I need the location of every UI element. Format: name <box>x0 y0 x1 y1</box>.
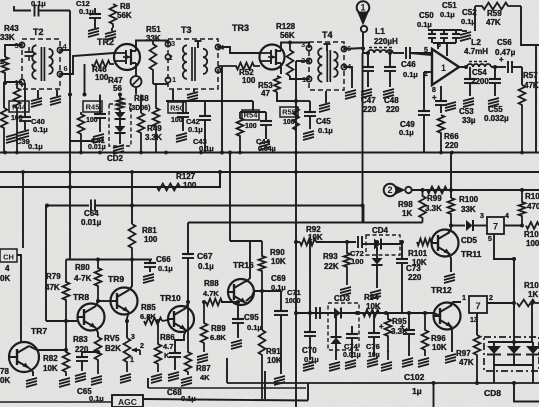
resistor R90 <box>259 241 266 291</box>
junction bus point 3 <box>98 151 102 155</box>
wire CD8 top rail <box>488 341 533 343</box>
resistor R97 <box>474 335 481 383</box>
wire x514 down to CD8 <box>513 259 515 342</box>
svg-text:C76: C76 <box>366 342 380 351</box>
junction TR11 base node <box>449 224 453 228</box>
junction C95 top <box>236 300 240 304</box>
resistor R93 <box>344 242 351 285</box>
capacitor C95 <box>237 302 239 319</box>
diode CD8 a <box>493 342 495 346</box>
svg-text:220: 220 <box>445 141 459 150</box>
svg-text:C46: C46 <box>401 60 416 69</box>
wire TR3 drain to T4 pin3 <box>281 43 309 49</box>
ground below C44 <box>259 141 270 144</box>
svg-text:R50: R50 <box>170 104 184 113</box>
wire TR10 emitter down <box>175 330 186 352</box>
ground below T2 left <box>37 90 39 98</box>
wire x132 bus B down <box>131 172 133 224</box>
wire C67 column <box>187 223 189 254</box>
resistor R44 <box>1 108 8 152</box>
ground below C41 <box>93 134 104 137</box>
wire bottom rail y399 <box>143 399 308 401</box>
capacitor C51 <box>443 30 445 34</box>
junction CD2 top <box>118 93 122 97</box>
svg-text:C74: C74 <box>344 342 359 351</box>
capacitor C67 <box>182 253 194 255</box>
junction x70 busC <box>68 185 72 189</box>
AGC box <box>112 395 143 407</box>
resistor R89 <box>201 302 208 352</box>
svg-text:C64: C64 <box>84 209 99 218</box>
capacitor C45 <box>309 101 311 112</box>
wire emitter rail y291 <box>254 290 281 292</box>
label box R54 <box>242 110 259 120</box>
svg-text:100: 100 <box>526 239 539 248</box>
wire bus D corner down <box>363 206 365 223</box>
wire x265 drop <box>264 371 266 399</box>
diode group CD2 dashed box <box>109 104 131 146</box>
ground below RV5 <box>120 374 131 377</box>
junction C73 top <box>400 240 404 244</box>
wire x227 stub <box>226 358 228 383</box>
IC box 7 (first) <box>487 217 504 234</box>
junction bus point 4 <box>139 151 143 155</box>
svg-text:56: 56 <box>113 84 122 93</box>
svg-text:3: 3 <box>301 40 305 49</box>
junction bus point 12 <box>21 170 25 174</box>
wire R44 top lead <box>3 83 5 108</box>
junction bus point 9 <box>439 151 443 155</box>
diode CD8 b <box>513 342 515 346</box>
capacitor C74 <box>351 326 353 334</box>
svg-text:C67: C67 <box>197 251 213 261</box>
svg-text:R79: R79 <box>46 272 61 281</box>
ground TR11 emitter <box>444 274 455 277</box>
wire bypass bottom rail <box>433 42 456 44</box>
resistor R102 <box>526 222 539 229</box>
wire long vertical node1 x362.5 <box>362 53 364 222</box>
transformer T4 <box>301 40 352 90</box>
wire bus A full width <box>0 151 539 153</box>
capacitor C52 <box>455 30 457 34</box>
svg-text:L1: L1 <box>375 26 385 36</box>
svg-text:10K: 10K <box>432 343 447 352</box>
wire pin2 down C49 <box>423 72 425 110</box>
svg-text:R83: R83 <box>73 335 88 344</box>
wire TR7 emitter <box>29 368 33 376</box>
wire under-T3 rail <box>166 100 253 102</box>
ground below CD4 shunt <box>370 290 381 293</box>
wire TR12 base <box>434 313 440 316</box>
wire opamp pin5 in <box>410 53 432 55</box>
svg-text:56K: 56K <box>280 31 295 40</box>
junction R128 top <box>288 41 292 45</box>
wire base rail to C95 <box>221 301 238 303</box>
junction busA x230 <box>228 151 232 155</box>
resistor R94 <box>363 310 386 317</box>
resistor R53 zigzag <box>274 76 280 92</box>
diode CD5 <box>466 220 473 231</box>
wire TR8 collector up <box>96 301 98 306</box>
junction R97 bottom <box>475 381 479 385</box>
ground below C12 <box>94 24 96 28</box>
junction TR9 emitter <box>125 319 129 323</box>
junction R80/TR8 collector <box>96 299 100 303</box>
svg-text:0.1µ: 0.1µ <box>304 355 319 364</box>
svg-text:R98: R98 <box>398 200 413 209</box>
svg-text:0.1µ: 0.1µ <box>247 323 262 332</box>
svg-text:R8: R8 <box>120 2 131 11</box>
diode group CD4 dashed box <box>366 235 400 255</box>
junction pin2/x514 <box>512 301 516 305</box>
junction bus point 1 <box>15 151 19 155</box>
wire down to L1 line <box>363 48 368 53</box>
svg-text:220µH: 220µH <box>374 37 398 46</box>
svg-text:470: 470 <box>527 202 539 211</box>
ground below C74 <box>345 360 356 363</box>
wire bus C with corner <box>0 172 220 187</box>
junction R80 top <box>96 258 100 262</box>
wire x148 stub <box>147 378 149 388</box>
junction bus point 5 <box>164 151 168 155</box>
ground below C45 <box>303 131 314 134</box>
capacitor C40 <box>24 83 26 117</box>
svg-text:C70: C70 <box>302 346 317 355</box>
junction R92 drop top <box>308 240 312 244</box>
wire CD8 third riser <box>531 303 533 342</box>
resistor R81 <box>129 224 136 260</box>
wire TR12 collector <box>450 302 461 306</box>
label box R55 <box>280 107 298 117</box>
resistor R49 <box>138 113 145 152</box>
wire CD8 left drop <box>493 365 495 383</box>
svg-text:AGC: AGC <box>118 397 137 407</box>
svg-text:TR11: TR11 <box>461 249 482 259</box>
svg-text:TR12: TR12 <box>431 285 452 295</box>
svg-text:4.7mH: 4.7mH <box>464 47 488 56</box>
label box R44 <box>9 101 29 112</box>
svg-text:1000: 1000 <box>285 298 301 305</box>
potentiometer RV5 <box>124 338 131 372</box>
resistor R83 <box>95 337 102 374</box>
svg-text:C54: C54 <box>472 68 487 77</box>
wire detector rail y313 <box>296 312 434 314</box>
svg-text:1: 1 <box>130 357 134 364</box>
svg-text:R43: R43 <box>4 24 19 33</box>
svg-text:3: 3 <box>171 39 175 48</box>
ground C39 <box>6 134 17 137</box>
svg-text:33K: 33K <box>0 33 15 42</box>
resistor R92 <box>300 239 316 246</box>
resistor R8 <box>110 4 117 28</box>
junction bus point 13 <box>68 170 72 174</box>
capacitor C65 <box>76 356 88 358</box>
junction bus point 8 <box>294 151 298 155</box>
svg-text:R85: R85 <box>141 303 156 312</box>
ground below R86 <box>151 374 162 377</box>
svg-text:1: 1 <box>172 75 176 84</box>
svg-text:TR8: TR8 <box>73 292 89 302</box>
junction R89 top <box>202 300 206 304</box>
wire bus D left segment <box>47 205 89 207</box>
svg-text:CH: CH <box>3 253 14 262</box>
wire L1 to C46 <box>393 52 404 54</box>
transistor TR11 <box>432 230 459 257</box>
svg-text:R59: R59 <box>487 9 502 18</box>
transistor TR12 <box>434 303 461 330</box>
node 2 off-page connector <box>384 184 412 197</box>
junction x522 y190 <box>520 188 524 192</box>
junction TR10 collector node <box>186 300 190 304</box>
svg-text:10K: 10K <box>366 302 381 311</box>
junction busD x132 <box>130 204 134 208</box>
capacitor C70 <box>309 313 311 332</box>
junction x296 y313 <box>294 311 298 315</box>
junction R43/pin1 <box>3 81 7 85</box>
wire circle to rail <box>135 87 137 95</box>
resistor R66 <box>438 115 445 153</box>
diode CD8 c <box>532 342 534 346</box>
svg-text:R100: R100 <box>459 195 479 204</box>
capacitor C49 <box>418 110 430 112</box>
wire TR7 collector to R82 <box>29 346 66 350</box>
wire T2 pin4 to x70 <box>60 49 70 51</box>
label box CH <box>0 249 17 262</box>
ground below C48 <box>383 89 394 92</box>
ground T4 pin4 <box>345 90 356 93</box>
wire node1 down <box>362 32 364 48</box>
capacitor C48 <box>389 53 391 67</box>
svg-text:R82: R82 <box>43 354 58 363</box>
wire C53 top stub <box>440 86 442 100</box>
wire x514 drop corner <box>514 383 539 402</box>
resistor R46 <box>92 61 114 68</box>
svg-text:0.01µ: 0.01µ <box>81 218 102 227</box>
svg-text:R89: R89 <box>211 324 226 333</box>
wire bypass top rail <box>428 29 462 31</box>
wiper arrow RV5 <box>132 349 140 351</box>
capacitor C71 <box>280 291 282 311</box>
wire TR2 drain to top rail <box>136 41 168 46</box>
svg-text:100: 100 <box>144 235 158 244</box>
svg-text:4.7K: 4.7K <box>203 289 219 298</box>
svg-text:33K: 33K <box>461 205 476 214</box>
wire long vertical x70 AGC feed <box>69 45 71 95</box>
junction C65 <box>96 350 100 354</box>
ground below C54 <box>463 98 474 101</box>
transistor TR10 <box>168 306 194 332</box>
svg-text:0.1µ: 0.1µ <box>31 0 46 8</box>
svg-text:22K: 22K <box>324 262 339 271</box>
wire TR10 collector up <box>185 302 188 308</box>
svg-text:6: 6 <box>64 64 68 73</box>
svg-text:2: 2 <box>140 343 144 350</box>
node 1 off-page connector <box>357 1 370 32</box>
wire TR9 collector up <box>129 260 132 291</box>
svg-text:1: 1 <box>441 63 446 73</box>
capacitor C47 <box>367 53 369 67</box>
wire R92 to C72 <box>316 241 356 243</box>
wire CH to TR7 <box>17 255 21 343</box>
svg-text:R45: R45 <box>86 103 100 112</box>
svg-text:C102: C102 <box>404 372 425 382</box>
svg-text:100: 100 <box>245 123 257 130</box>
svg-text:2200: 2200 <box>471 77 489 86</box>
wire x70 bus B down <box>69 95 71 260</box>
svg-text:TR9: TR9 <box>108 274 124 284</box>
svg-text:B2K: B2K <box>105 344 121 353</box>
resistor R59 <box>475 3 521 10</box>
svg-text:R88: R88 <box>204 279 219 288</box>
wire rail corner to R49 <box>140 95 142 114</box>
ground right of C53 <box>445 102 456 105</box>
junction TR8-base/R82 <box>64 319 68 323</box>
wire box7a pin5 loop <box>494 234 514 259</box>
wire C65 branch <box>82 352 98 356</box>
svg-text:C55: C55 <box>488 105 503 114</box>
wire AGC rail <box>0 401 112 403</box>
wire T3 pin4 to TR3 gate1 <box>218 47 260 53</box>
wire R92 drop x310 <box>309 242 311 313</box>
junction C54b <box>493 65 497 69</box>
ground below C77 <box>402 358 413 361</box>
junction C70 top <box>308 311 312 315</box>
capacitor C76 electrolytic <box>373 313 375 333</box>
svg-text:10K: 10K <box>267 356 282 365</box>
junction bus point 11 <box>520 151 524 155</box>
svg-text:T4: T4 <box>322 30 333 40</box>
svg-text:4: 4 <box>505 213 509 220</box>
resistor R55 zigzag <box>293 108 299 130</box>
resistor R47 zigzag <box>117 95 124 111</box>
svg-text:R86: R86 <box>160 333 175 342</box>
svg-text:0.1µ: 0.1µ <box>440 10 455 19</box>
ground below C40 <box>24 127 26 130</box>
ground below C70 <box>303 362 314 365</box>
svg-text:C48: C48 <box>384 96 399 105</box>
junction R93 top <box>345 240 349 244</box>
svg-text:CD2: CD2 <box>107 154 124 163</box>
svg-text:C47: C47 <box>361 96 376 105</box>
ground below C55 <box>488 98 499 101</box>
wire TR3 source down <box>280 70 282 74</box>
resistor small mid-left <box>14 83 21 152</box>
ground below CD2 <box>113 145 124 148</box>
capacitor C66 <box>149 260 151 264</box>
wire rail y259.5 <box>66 259 152 261</box>
svg-text:4-7K: 4-7K <box>74 274 92 283</box>
wire bottom rail y383 <box>227 382 539 384</box>
svg-text:0.1µ: 0.1µ <box>158 264 173 273</box>
diode CD3 series <box>326 312 334 314</box>
svg-text:0.1µ: 0.1µ <box>188 125 203 134</box>
svg-text:47K: 47K <box>486 18 501 27</box>
svg-text:100: 100 <box>95 73 109 82</box>
svg-text:RV5: RV5 <box>104 334 120 343</box>
resistor R85 <box>144 318 162 325</box>
resistor R82 <box>63 321 70 376</box>
svg-text:2: 2 <box>169 53 173 62</box>
ground below T2 right <box>56 90 58 96</box>
wire riser pin6 <box>437 43 439 49</box>
resistor R88 <box>206 299 229 306</box>
svg-text:CD3: CD3 <box>334 294 351 303</box>
junction bus point 7 <box>238 151 242 155</box>
svg-text:+: + <box>379 322 384 331</box>
ground below R83 <box>91 376 102 379</box>
junction R86 top <box>156 319 160 323</box>
svg-text:0.1µ: 0.1µ <box>461 17 476 26</box>
svg-text:+: + <box>400 322 405 331</box>
svg-text:10µ: 10µ <box>368 352 380 359</box>
wire bottom rail y388 <box>148 387 306 389</box>
svg-text:100: 100 <box>242 76 256 85</box>
ground below R87 <box>181 377 192 380</box>
svg-text:47K: 47K <box>45 283 60 292</box>
resistor R57 <box>519 85 526 153</box>
resistor R101 <box>417 239 433 246</box>
svg-text:0.1µ: 0.1µ <box>33 125 48 134</box>
ground below R82 <box>59 378 70 381</box>
transistor TR8 <box>78 304 105 331</box>
svg-text:CD5: CD5 <box>461 236 478 245</box>
junction R82 tap <box>64 348 68 352</box>
wire T2 pin3 to left <box>5 45 22 57</box>
svg-text:C45: C45 <box>316 117 331 126</box>
svg-text:C68: C68 <box>167 388 182 397</box>
junction CD3 shunt top <box>334 311 338 315</box>
wire rail y222 <box>188 222 423 224</box>
junction y383 x514 <box>512 381 516 385</box>
ground below C42 <box>176 133 187 136</box>
wire R51 bottom to T3 pin1 <box>153 83 168 85</box>
capacitor C53 <box>435 100 447 102</box>
label box R50 <box>168 102 186 113</box>
junction pin2 third riser <box>530 301 534 305</box>
wire x23 from bus B down <box>22 172 24 248</box>
svg-text:TR2: TR2 <box>97 37 114 47</box>
junction x222 busA <box>220 151 224 155</box>
svg-text:C51: C51 <box>442 1 457 10</box>
svg-text:C66: C66 <box>156 255 171 264</box>
resistor R54 <box>237 112 244 152</box>
diode group CD3 dashed box <box>328 303 359 350</box>
svg-text:0.1µ: 0.1µ <box>403 70 418 79</box>
wire TR16 collector rail <box>230 240 262 242</box>
ground below C65 <box>75 373 86 376</box>
wire riser to R59 <box>474 6 476 31</box>
svg-text:6.8K: 6.8K <box>140 312 156 321</box>
transistor TR9 <box>111 288 138 315</box>
junction x296 y101 <box>294 99 298 103</box>
resistor R80 <box>95 260 102 302</box>
resistor R127 <box>157 184 180 191</box>
resistor R98 <box>419 190 426 223</box>
svg-text:L2: L2 <box>471 37 481 47</box>
svg-text:TR3: TR3 <box>232 23 249 33</box>
wire box7a pin4 <box>504 225 522 227</box>
svg-text:4K: 4K <box>200 373 210 382</box>
wire TR11 emitter <box>448 253 451 272</box>
junction opamp out <box>464 65 468 69</box>
svg-text:C69: C69 <box>271 274 286 283</box>
diode group CD8 dash-dot box <box>484 337 539 371</box>
IC box 7 (second) <box>469 296 487 313</box>
wire T4 pin2 to x296 <box>296 60 309 62</box>
ground below T3 <box>193 89 195 92</box>
junction bus point 6 <box>199 151 203 155</box>
svg-text:0.1µ: 0.1µ <box>198 262 214 271</box>
